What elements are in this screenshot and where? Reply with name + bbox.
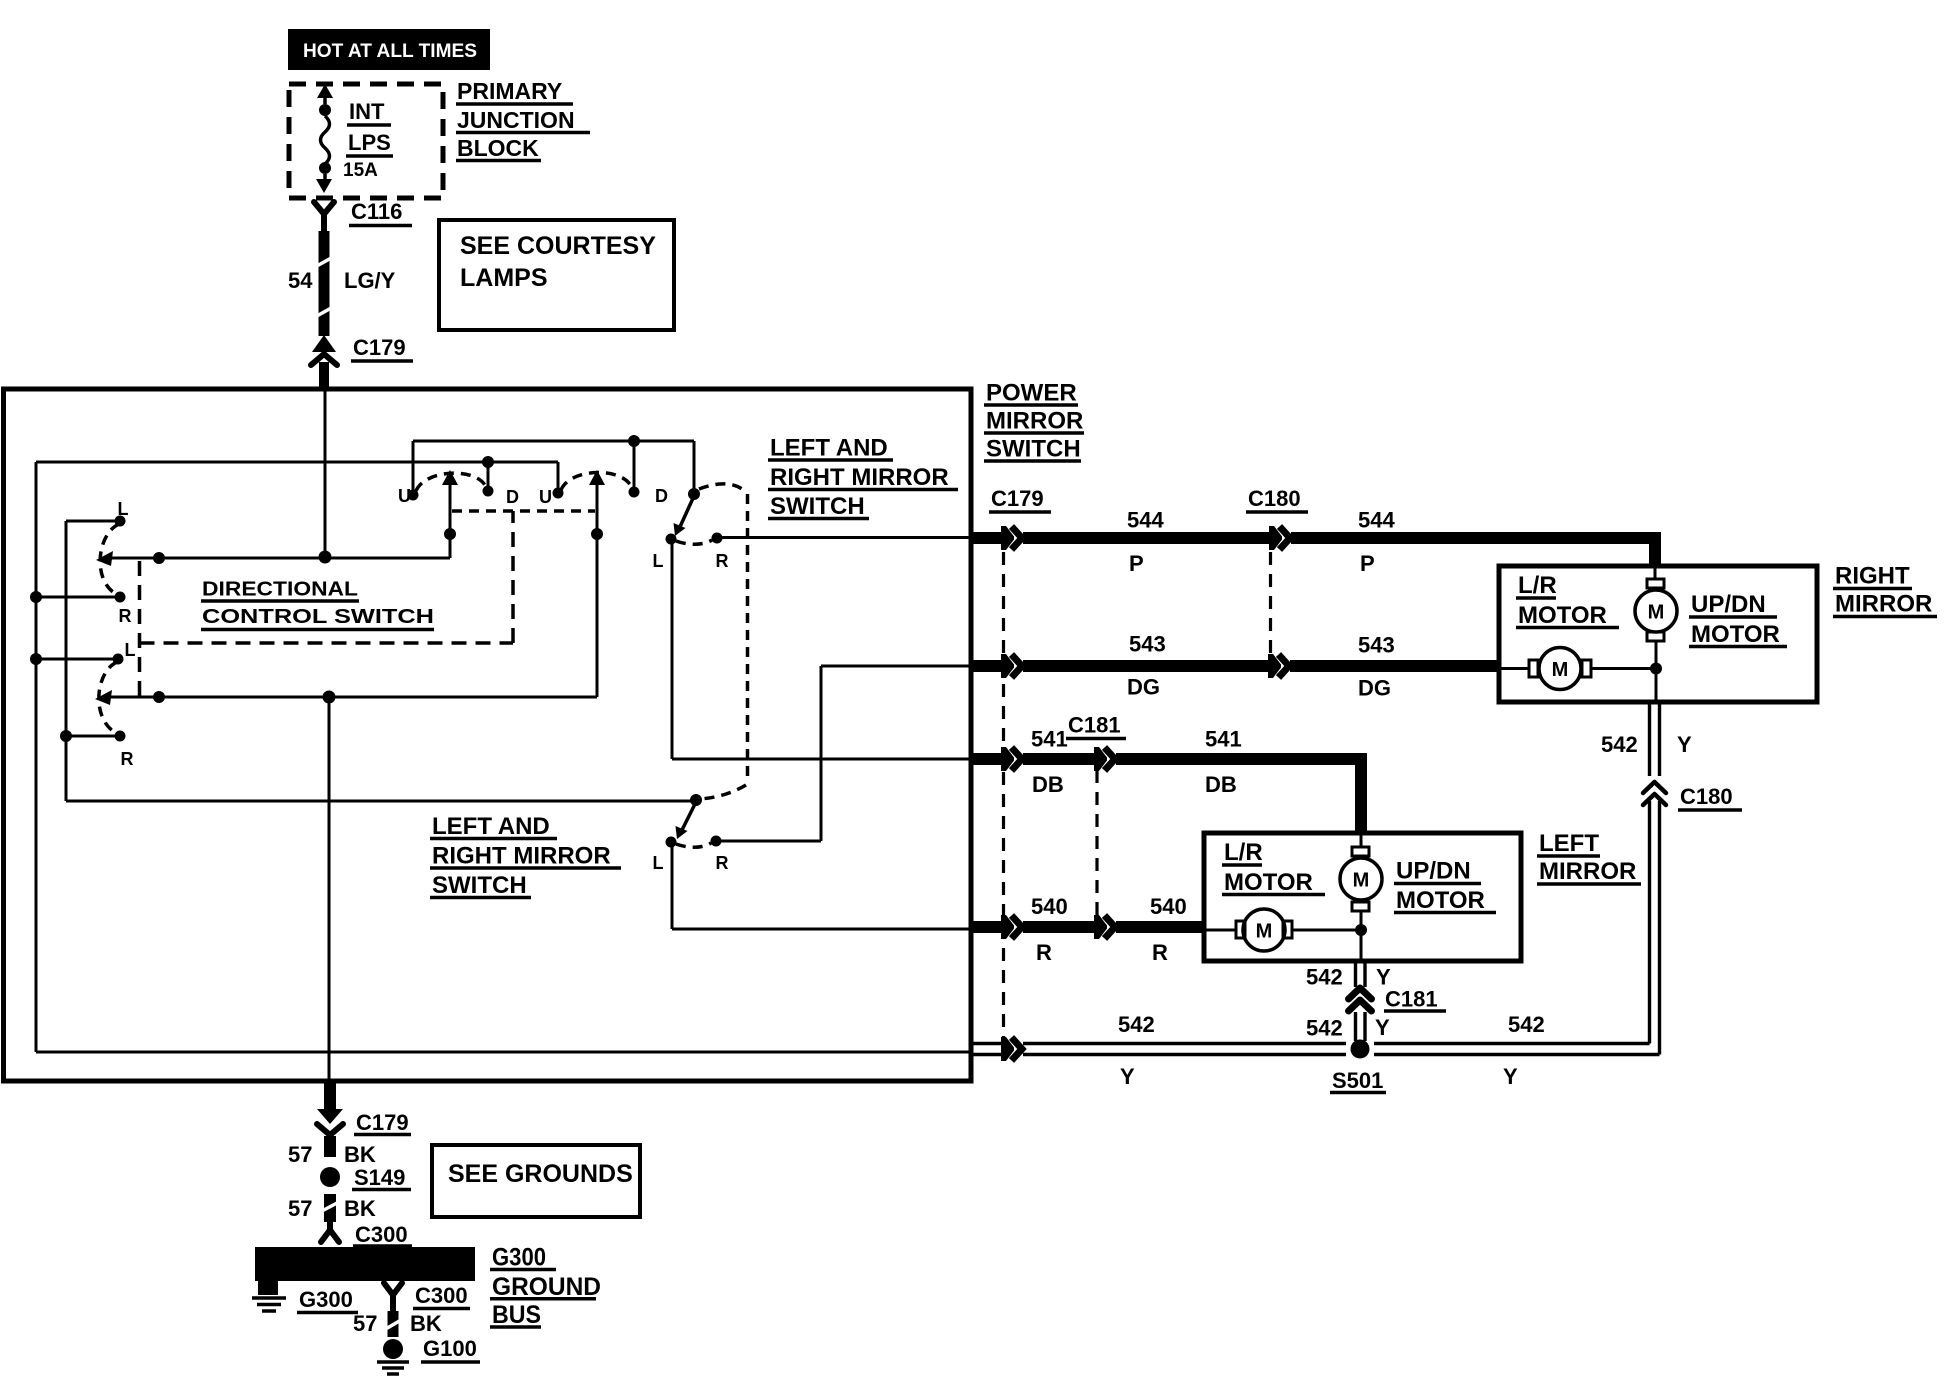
node R1 branch bbox=[30, 591, 42, 603]
wire 57 BK segment 3 bbox=[353, 1311, 442, 1337]
label 542 Y below C181 bbox=[1306, 1015, 1390, 1041]
wire 57 BK segment 1 bbox=[288, 1136, 376, 1167]
wire 544 P segment 3 bbox=[1291, 532, 1661, 544]
label RIGHT MIRROR bbox=[1833, 563, 1937, 618]
left mirror box bbox=[1204, 833, 1521, 961]
wire feed to lower LR pivot bbox=[66, 800, 695, 803]
wire 543 DG segment 3 bbox=[1290, 660, 1499, 672]
left mirror l/r motor bbox=[1204, 909, 1361, 951]
ground G300 symbol bbox=[252, 1281, 358, 1313]
svg-text:LG/Y: LG/Y bbox=[344, 268, 396, 293]
node feed junction bbox=[319, 551, 332, 564]
node R2 bbox=[115, 731, 126, 742]
label 542 Y right vertical bbox=[1601, 732, 1692, 757]
label S501 bbox=[1330, 1068, 1386, 1093]
connector C181 on left 542 bbox=[1349, 988, 1372, 1011]
wire 542 right mirror vertical hollow bbox=[1650, 702, 1660, 1055]
wire 57 exit below box bbox=[324, 1081, 336, 1112]
connector C179 on 544 bbox=[1001, 526, 1022, 550]
label 544 P first bbox=[1127, 508, 1164, 577]
label UP/DN MOTOR right box bbox=[1689, 591, 1787, 648]
wire L upper to 541 exit bbox=[672, 758, 971, 761]
svg-text:DIRECTIONAL: DIRECTIONAL bbox=[202, 579, 358, 601]
wire wiper1 stem up bbox=[449, 481, 452, 558]
lower left-right mirror switch pivot bbox=[690, 794, 702, 806]
svg-text:L/R: L/R bbox=[1224, 839, 1263, 866]
right mirror l/r motor bbox=[1499, 648, 1656, 690]
node ground junction bbox=[323, 691, 336, 704]
svg-text:CONTROL SWITCH: CONTROL SWITCH bbox=[202, 606, 434, 628]
svg-text:15A: 15A bbox=[343, 160, 378, 181]
svg-text:DG: DG bbox=[1358, 676, 1391, 701]
svg-text:S501: S501 bbox=[1332, 1068, 1383, 1093]
svg-text:BK: BK bbox=[410, 1311, 442, 1336]
label 543 DG second bbox=[1358, 633, 1395, 701]
label C181 bottom bbox=[1384, 987, 1446, 1012]
svg-text:MIRROR: MIRROR bbox=[986, 408, 1083, 435]
wire drop to U2 bbox=[557, 462, 560, 492]
note box SEE GROUNDS bbox=[432, 1145, 640, 1217]
svg-text:BUS: BUS bbox=[492, 1301, 541, 1329]
svg-text:C180: C180 bbox=[1248, 486, 1301, 511]
svg-text:C181: C181 bbox=[1385, 987, 1438, 1012]
directional control switch dashed outline bbox=[140, 511, 514, 698]
svg-text:SEE GROUNDS: SEE GROUNDS bbox=[448, 1160, 633, 1188]
dashed arc L2-R2 bbox=[99, 662, 117, 733]
wire 54 LG/Y bbox=[288, 231, 396, 336]
wire R upper to 544 exit bbox=[717, 536, 971, 539]
wiper arm upper LR switch bbox=[679, 496, 694, 529]
svg-text:541: 541 bbox=[1031, 727, 1068, 752]
svg-text:D: D bbox=[506, 487, 519, 507]
label DIRECTIONAL CONTROL SWITCH bbox=[201, 579, 434, 630]
node UD wiper1 pivot bbox=[444, 528, 456, 540]
svg-text:R: R bbox=[1036, 940, 1052, 965]
wire link to L1 bbox=[66, 520, 120, 523]
label 540 R first bbox=[1031, 894, 1068, 965]
svg-text:544: 544 bbox=[1358, 508, 1395, 533]
svg-text:SWITCH: SWITCH bbox=[432, 872, 527, 899]
svg-text:MOTOR: MOTOR bbox=[1691, 621, 1780, 648]
label LEFT AND RIGHT MIRROR SWITCH (lower) bbox=[430, 813, 621, 899]
wire net D1-U2 horizontal bbox=[36, 461, 558, 464]
svg-text:Y: Y bbox=[1503, 1064, 1518, 1089]
svg-text:BK: BK bbox=[344, 1142, 376, 1167]
connector C116 bbox=[314, 199, 412, 231]
wire wiper2 stem up bbox=[596, 481, 599, 697]
wire R lower right bbox=[716, 840, 821, 843]
connector C181 on 541 bbox=[1094, 747, 1115, 771]
svg-text:G100: G100 bbox=[423, 1336, 477, 1361]
svg-text:UP/DN: UP/DN bbox=[1396, 858, 1471, 885]
power mirror switch box bbox=[4, 389, 972, 1081]
svg-text:543: 543 bbox=[1358, 633, 1395, 658]
svg-text:C179: C179 bbox=[356, 1110, 409, 1135]
splice S149 bbox=[320, 1165, 411, 1190]
splice S501 bbox=[1351, 1040, 1370, 1059]
wire 543 DG thick bbox=[972, 660, 1001, 672]
wire L1-R2 loop vertical bbox=[65, 521, 68, 801]
svg-text:L: L bbox=[118, 499, 129, 519]
wire ground vertical to box bottom bbox=[328, 697, 331, 1081]
svg-text:DG: DG bbox=[1127, 675, 1160, 700]
svg-text:R: R bbox=[716, 551, 729, 571]
svg-text:M: M bbox=[1353, 870, 1370, 892]
node L2 bbox=[113, 654, 124, 665]
wire 540 R thick bbox=[972, 921, 1001, 933]
label 542 Y above C181 bbox=[1306, 965, 1391, 990]
wire left return loop vertical bbox=[35, 462, 38, 1052]
svg-text:BK: BK bbox=[344, 1196, 376, 1221]
dashed mechanical rail vertical bbox=[746, 494, 750, 782]
node junction top wire bbox=[628, 435, 640, 447]
svg-text:L/R: L/R bbox=[1518, 572, 1557, 599]
node L upper LR bbox=[666, 534, 677, 545]
svg-text:RIGHT: RIGHT bbox=[1835, 563, 1910, 590]
svg-text:LEFT AND: LEFT AND bbox=[770, 434, 888, 461]
label 541 DB second bbox=[1205, 727, 1242, 798]
svg-text:544: 544 bbox=[1127, 508, 1164, 533]
svg-text:HOT AT ALL TIMES: HOT AT ALL TIMES bbox=[303, 41, 477, 62]
svg-text:DB: DB bbox=[1205, 772, 1237, 797]
wiper arm lower LR switch bbox=[681, 802, 696, 832]
svg-text:MIRROR: MIRROR bbox=[1835, 591, 1932, 618]
label POWER MIRROR SWITCH bbox=[984, 380, 1084, 463]
svg-text:C179: C179 bbox=[353, 335, 406, 360]
svg-text:SWITCH: SWITCH bbox=[986, 436, 1081, 463]
fuse INT LPS 15A bbox=[316, 84, 393, 193]
wiper arm 1 feed horizontal bbox=[103, 557, 450, 560]
svg-text:542: 542 bbox=[1306, 965, 1343, 990]
connector C179 on 540 bbox=[1001, 915, 1022, 939]
svg-text:542: 542 bbox=[1601, 732, 1638, 757]
note box SEE COURTESY LAMPS bbox=[439, 220, 674, 330]
arrowhead UD wiper2 bbox=[589, 470, 605, 485]
svg-text:LAMPS: LAMPS bbox=[460, 264, 548, 292]
svg-text:DB: DB bbox=[1032, 772, 1064, 797]
label UP/DN MOTOR left box bbox=[1394, 858, 1496, 914]
svg-text:C179: C179 bbox=[991, 486, 1044, 511]
node pivot wiper1 bbox=[153, 552, 165, 564]
svg-text:L: L bbox=[653, 853, 664, 873]
wire drop to D2 bbox=[633, 441, 636, 491]
wire L lower down bbox=[671, 846, 674, 929]
wire L lower to 540 exit bbox=[672, 928, 971, 931]
dashed arc L1-R1 bbox=[100, 524, 119, 594]
wire 542 Y hollow run bbox=[972, 1037, 1660, 1061]
svg-text:57: 57 bbox=[288, 1196, 312, 1221]
connector C300 top bbox=[321, 1222, 412, 1247]
wire drop to U1 bbox=[412, 441, 415, 494]
svg-text:Y: Y bbox=[1375, 1015, 1390, 1040]
right mirror up/dn motor bbox=[1635, 566, 1677, 668]
left mirror up/dn motor bbox=[1340, 833, 1382, 930]
wire top net U1-D2-pivot bbox=[413, 440, 694, 443]
label 542 Y bottom left bbox=[1118, 1012, 1155, 1089]
node D1 bbox=[483, 486, 494, 497]
svg-text:M: M bbox=[1648, 602, 1665, 624]
right mirror box bbox=[1499, 566, 1817, 702]
label 541 DB first bbox=[1031, 727, 1068, 798]
wire R lower to 543 exit bbox=[821, 665, 971, 668]
dashed arc U2-D2 bbox=[561, 472, 632, 490]
svg-text:GROUND: GROUND bbox=[492, 1273, 601, 1301]
dashed mechanical link UD wipers bbox=[452, 509, 595, 513]
svg-text:541: 541 bbox=[1205, 727, 1242, 752]
arrowhead wiper2 left bbox=[95, 690, 112, 705]
wire link to R1 bbox=[36, 596, 120, 599]
node D2 bbox=[629, 487, 640, 498]
connector C180 on right 542 bbox=[1643, 782, 1666, 805]
wire L upper down bbox=[671, 543, 674, 759]
svg-text:G300: G300 bbox=[492, 1244, 546, 1272]
connector C179 on 541 bbox=[1001, 747, 1022, 771]
node pivot wiper2 bbox=[153, 691, 165, 703]
svg-text:LEFT: LEFT bbox=[1539, 830, 1599, 857]
label C180 right vertical bbox=[1678, 784, 1742, 810]
dashed link L-R upper bbox=[676, 540, 712, 544]
connector C179 bottom bbox=[317, 1109, 411, 1135]
arrowhead lower LR wiper bbox=[676, 826, 688, 839]
wire link to L2 bbox=[36, 658, 118, 661]
connector C181 on 540 bbox=[1094, 915, 1115, 939]
svg-text:57: 57 bbox=[288, 1142, 312, 1167]
label C181 top bbox=[1066, 713, 1126, 739]
svg-text:P: P bbox=[1129, 551, 1144, 576]
arrowhead UD wiper1 bbox=[442, 470, 458, 485]
dashed connector line C180 bbox=[1269, 552, 1272, 659]
wire link to R2 bbox=[66, 735, 120, 738]
svg-text:INT: INT bbox=[349, 99, 385, 124]
wire 541 drop to left mirror bbox=[1355, 755, 1367, 833]
svg-text:G300: G300 bbox=[299, 1287, 353, 1312]
dashed link L-R lower bbox=[676, 843, 711, 847]
node L2 branch bbox=[30, 653, 42, 665]
svg-text:RIGHT MIRROR: RIGHT MIRROR bbox=[432, 842, 611, 869]
arrowhead upper LR wiper bbox=[674, 523, 686, 536]
svg-text:P: P bbox=[1360, 551, 1375, 576]
dashed arc U1-D1 bbox=[416, 473, 486, 491]
wire 540 R segment 3 bbox=[1116, 921, 1204, 933]
svg-text:SWITCH: SWITCH bbox=[770, 493, 865, 520]
node R lower LR bbox=[711, 836, 722, 847]
connector C180 on 544 bbox=[1269, 526, 1290, 550]
svg-text:542: 542 bbox=[1306, 1016, 1343, 1041]
svg-text:M: M bbox=[1256, 921, 1273, 943]
wire 542 internal return bbox=[36, 1051, 971, 1054]
label L/R MOTOR right box bbox=[1516, 572, 1619, 629]
node L lower LR bbox=[666, 837, 677, 848]
node R1 bbox=[115, 592, 126, 603]
svg-text:S149: S149 bbox=[354, 1165, 405, 1190]
svg-text:C300: C300 bbox=[415, 1283, 468, 1308]
svg-text:MOTOR: MOTOR bbox=[1224, 869, 1313, 896]
wire battery feed vertical bbox=[324, 389, 327, 557]
wire 541 DB thick bbox=[972, 753, 1001, 765]
svg-text:SEE COURTESY: SEE COURTESY bbox=[460, 232, 656, 260]
connector C179 on 543 bbox=[1001, 654, 1022, 678]
label 543 DG first bbox=[1127, 632, 1166, 700]
svg-text:C300: C300 bbox=[355, 1222, 408, 1247]
svg-text:C181: C181 bbox=[1068, 713, 1121, 738]
label LEFT AND RIGHT MIRROR SWITCH (upper) bbox=[768, 434, 958, 520]
connector C300 bottom bbox=[384, 1283, 470, 1311]
wire 544 drop to right mirror bbox=[1649, 532, 1661, 566]
wire 543 DG segment 2 bbox=[1023, 660, 1268, 672]
svg-text:L: L bbox=[125, 640, 136, 660]
wire 541 DB segment 2 bbox=[1023, 753, 1094, 765]
wire drop to D1 bbox=[487, 462, 490, 490]
svg-text:Y: Y bbox=[1677, 732, 1692, 757]
svg-text:C180: C180 bbox=[1680, 784, 1733, 809]
svg-text:PRIMARY: PRIMARY bbox=[457, 78, 562, 104]
svg-text:D: D bbox=[655, 486, 668, 506]
label C179 bbox=[989, 486, 1051, 512]
svg-text:540: 540 bbox=[1031, 894, 1068, 919]
svg-text:57: 57 bbox=[353, 1311, 377, 1336]
svg-text:LPS: LPS bbox=[348, 130, 391, 155]
label G300 GROUND BUS bbox=[490, 1244, 601, 1330]
wire R lower up bbox=[820, 666, 823, 841]
label 540 R second bbox=[1150, 894, 1187, 965]
node UD wiper2 pivot bbox=[591, 528, 603, 540]
svg-text:POWER: POWER bbox=[986, 380, 1077, 407]
header HOT AT ALL TIMES bbox=[288, 29, 490, 70]
wire 540 R segment 2 bbox=[1023, 921, 1094, 933]
svg-text:U: U bbox=[539, 487, 552, 507]
wiper arm 2 ground horizontal bbox=[102, 696, 597, 699]
svg-text:54: 54 bbox=[288, 268, 313, 293]
primary junction block dashed outline bbox=[289, 84, 443, 198]
svg-text:MOTOR: MOTOR bbox=[1518, 602, 1607, 629]
arrowhead wiper1 left bbox=[96, 551, 113, 566]
dashed mechanical link rail to lower pivot bbox=[700, 785, 746, 799]
svg-text:R: R bbox=[1152, 940, 1168, 965]
ground G100 bbox=[377, 1336, 480, 1374]
svg-text:540: 540 bbox=[1150, 894, 1187, 919]
dashed connector line C179 bbox=[1002, 552, 1005, 1040]
wire 544 P segment 2 bbox=[1023, 532, 1269, 544]
upper left-right mirror switch pivot bbox=[688, 488, 700, 500]
node U1 bbox=[408, 490, 419, 501]
dashed mechanical link upper pivot to rail bbox=[699, 484, 747, 493]
connector C180 on 543 bbox=[1268, 654, 1289, 678]
node L1 bbox=[115, 516, 126, 527]
svg-text:RIGHT MIRROR: RIGHT MIRROR bbox=[770, 464, 949, 491]
svg-text:R: R bbox=[121, 749, 134, 769]
svg-text:542: 542 bbox=[1118, 1012, 1155, 1037]
svg-text:MIRROR: MIRROR bbox=[1539, 858, 1636, 885]
wire 544 P thick bbox=[972, 532, 1001, 544]
ground bus G300 bbox=[255, 1247, 475, 1281]
node U2 bbox=[553, 488, 564, 499]
svg-text:MOTOR: MOTOR bbox=[1396, 887, 1485, 914]
svg-text:UP/DN: UP/DN bbox=[1691, 591, 1766, 618]
svg-text:L: L bbox=[653, 551, 664, 571]
svg-text:542: 542 bbox=[1508, 1012, 1545, 1037]
label 544 P second bbox=[1358, 508, 1395, 577]
wire drop to upper LR pivot bbox=[693, 441, 696, 492]
node branch D1 bbox=[482, 456, 494, 468]
label C180 bbox=[1246, 486, 1308, 512]
wire 57 BK segment 2 bbox=[288, 1194, 376, 1222]
svg-text:543: 543 bbox=[1129, 632, 1166, 657]
label L/R MOTOR left box bbox=[1222, 839, 1325, 896]
dashed connector line C181 bbox=[1095, 770, 1098, 919]
svg-text:R: R bbox=[119, 606, 132, 626]
wire 541 DB segment 3 bbox=[1116, 753, 1367, 765]
wire 542 left mirror drop hollow bbox=[1356, 961, 1366, 1041]
wire left mirror junction down bbox=[1360, 930, 1363, 961]
svg-text:U: U bbox=[398, 486, 411, 506]
svg-text:Y: Y bbox=[1120, 1064, 1135, 1089]
svg-text:C116: C116 bbox=[351, 199, 402, 224]
node R2 branch bbox=[60, 730, 72, 742]
label LEFT MIRROR bbox=[1537, 830, 1641, 885]
svg-text:BLOCK: BLOCK bbox=[457, 135, 539, 161]
node right mirror junction bbox=[1650, 663, 1662, 675]
node R upper LR bbox=[712, 533, 723, 544]
wire right mirror junction down bbox=[1655, 669, 1658, 703]
connector C179 top bbox=[311, 335, 413, 389]
node left mirror junction bbox=[1355, 924, 1367, 936]
svg-text:JUNCTION: JUNCTION bbox=[457, 107, 575, 133]
label 542 Y bottom right bbox=[1503, 1012, 1545, 1089]
svg-text:R: R bbox=[716, 853, 729, 873]
svg-text:LEFT AND: LEFT AND bbox=[432, 813, 550, 840]
svg-text:M: M bbox=[1552, 659, 1569, 681]
label PRIMARY JUNCTION BLOCK bbox=[456, 78, 590, 161]
